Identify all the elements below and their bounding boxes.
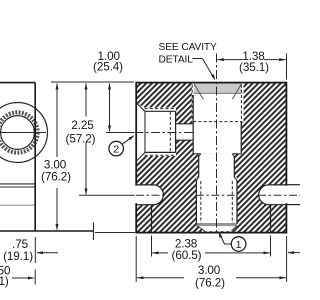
svg-text:(57.2): (57.2) xyxy=(66,132,96,145)
lower bore wall left xyxy=(195,180,197,224)
svg-text:2: 2 xyxy=(113,143,119,155)
dim .75 extension line xyxy=(34,237,36,263)
left slot outline xyxy=(137,185,164,205)
flare chamfer right xyxy=(234,177,237,180)
cavity lower bore white xyxy=(196,178,237,225)
neck chamfer left xyxy=(199,154,201,156)
dim 3.00 bottom extension right xyxy=(286,236,288,282)
cavity thread zone white xyxy=(192,83,244,121)
dim 3.00 left line upper xyxy=(56,84,58,158)
lower bore dashed left xyxy=(200,181,202,223)
cavity chamfer gray band xyxy=(194,83,242,93)
dim 3.00 left line lower xyxy=(56,188,58,230)
upper bore shoulder left xyxy=(193,153,201,155)
left view slot top line B xyxy=(0,186,35,188)
dim 3.00 bottom extension left xyxy=(135,236,137,282)
upper bore right wall xyxy=(240,122,242,154)
upper bore shoulder right xyxy=(232,153,241,155)
port horizontal centerline xyxy=(135,132,194,134)
thread major dashed left xyxy=(191,85,193,122)
port thread major dashed top xyxy=(145,108,176,110)
cavity bottom exit white xyxy=(196,224,237,231)
right slot outline xyxy=(259,185,286,205)
pilot hole bottom xyxy=(176,139,194,141)
cavity neck white xyxy=(199,154,235,178)
left view slot bottom line xyxy=(0,204,35,206)
neck chamfer right xyxy=(232,154,234,156)
port bore end xyxy=(175,111,177,152)
svg-text:DETAIL: DETAIL xyxy=(159,54,194,65)
port bore left edge xyxy=(144,111,146,152)
right slot hole white xyxy=(259,185,286,205)
left view corner tick xyxy=(93,223,95,241)
port thread bead ring xyxy=(0,112,38,152)
port cavity white xyxy=(137,103,194,161)
top extension line xyxy=(51,81,134,83)
neck wall left xyxy=(198,156,200,177)
svg-text:1: 1 xyxy=(236,239,242,251)
dim 1.50 extension line xyxy=(34,270,36,285)
svg-text:2.25: 2.25 xyxy=(71,119,94,132)
svg-text:3.00: 3.00 xyxy=(198,264,221,277)
cavity chamfer slant right xyxy=(232,84,241,99)
balloon 1 xyxy=(219,231,246,251)
exit chamfer left xyxy=(196,226,204,232)
port thread major dashed bottom xyxy=(145,154,176,156)
left view top edge xyxy=(0,82,35,84)
dim 1.50 arrow line xyxy=(12,277,34,279)
port center extension line xyxy=(106,132,134,134)
dim 2.25 line upper xyxy=(85,84,87,117)
right slot projection bottom xyxy=(286,204,300,206)
cavity vertical centerline xyxy=(216,54,218,233)
svg-text:(19.1): (19.1) xyxy=(3,250,33,263)
thread major dashed right xyxy=(240,85,242,122)
flare chamfer left xyxy=(196,177,198,180)
dim 2.25 line lower xyxy=(85,143,87,195)
section body outline xyxy=(136,83,286,233)
port thread runout dashed xyxy=(169,112,171,153)
see cavity detail leader xyxy=(193,58,203,60)
lower bore wall right xyxy=(236,180,238,224)
port inner circle xyxy=(1,116,35,150)
lower bore bottom shoulder xyxy=(196,223,237,225)
left view bottom edge xyxy=(0,230,94,232)
pilot hole top xyxy=(176,123,194,125)
svg-text:SEE CAVITY: SEE CAVITY xyxy=(159,42,218,53)
dim 3.00 bottom line xyxy=(137,277,184,279)
port chamfer bottom xyxy=(137,152,145,160)
svg-text:(38.1): (38.1) xyxy=(0,275,9,288)
port chamfer top xyxy=(137,103,145,111)
svg-text:(60.5): (60.5) xyxy=(172,249,202,262)
dim 1.38 line right xyxy=(264,59,286,61)
svg-text:(25.4): (25.4) xyxy=(93,61,123,74)
svg-text:(76.2): (76.2) xyxy=(195,277,225,290)
port outer chamfer circle xyxy=(0,103,48,163)
dim 1.00 line xyxy=(109,84,111,132)
port bore bottom xyxy=(145,151,176,153)
cavity chamfer slant left xyxy=(194,84,203,99)
bottom projection line xyxy=(95,232,135,234)
lower bore dashed right xyxy=(231,181,233,223)
right slot projection top xyxy=(286,184,300,186)
dim 1.38 line left xyxy=(217,59,243,61)
left view slot top line A xyxy=(0,183,35,185)
left view right edge xyxy=(34,83,36,231)
left slot hole white xyxy=(137,185,164,205)
port bore top xyxy=(145,110,176,112)
dim 2.38 extension left xyxy=(151,236,153,257)
thread end dashed line xyxy=(193,121,241,123)
svg-text:(35.1): (35.1) xyxy=(239,61,269,74)
svg-text:(76.2): (76.2) xyxy=(41,171,71,184)
dim .75 arrow line xyxy=(37,252,58,254)
slot face openings (break body edge) xyxy=(135,186,138,204)
balloon 2 xyxy=(109,135,135,156)
svg-text:3.00: 3.00 xyxy=(44,158,67,171)
neck wall right xyxy=(233,156,235,177)
slot horizontal centerline xyxy=(79,194,135,196)
right slot lower edge line xyxy=(270,205,272,232)
cavity upper bore white xyxy=(193,94,241,154)
dim 2.38 extension right xyxy=(270,236,272,257)
dim 1.38 extension right xyxy=(286,54,288,80)
port face centerline xyxy=(0,132,46,134)
section body hatched block xyxy=(136,83,286,233)
upper bore left wall xyxy=(192,95,194,154)
exit chamfer right xyxy=(231,226,237,232)
right edge small dim arrow xyxy=(288,252,300,254)
dim 2.38 line xyxy=(152,252,168,254)
left slot lower edge line xyxy=(151,205,153,232)
